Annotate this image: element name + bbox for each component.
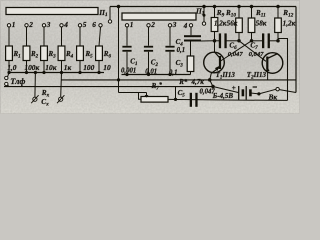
wire R6 column bbox=[99, 27, 101, 72]
capacitor C3 bbox=[165, 27, 174, 74]
node dot rotor P1b bbox=[202, 5, 206, 9]
rotor wire P1a bbox=[109, 7, 111, 20]
clamp terminal Rx-1 bbox=[31, 95, 38, 103]
wire to Cx terminal bbox=[60, 73, 63, 97]
svg-text:Тлф: Тлф bbox=[10, 77, 25, 86]
svg-text:3: 3 bbox=[46, 20, 51, 29]
svg-text:0,001: 0,001 bbox=[121, 67, 136, 74]
label Rx bbox=[41, 89, 50, 99]
battery B 4.5V bbox=[239, 86, 259, 100]
capacitor C5 bbox=[190, 93, 198, 107]
node dot base T1 bbox=[250, 39, 254, 43]
terminal 6 bbox=[92, 20, 96, 29]
resistor R4 bbox=[58, 46, 65, 61]
node dot base T2 bbox=[237, 39, 241, 43]
resistor R3 bbox=[41, 46, 48, 61]
T2 emitter wire bbox=[267, 73, 269, 79]
svg-text:100к: 100к bbox=[24, 63, 39, 72]
terminal 4 bbox=[60, 24, 63, 27]
resistor R6 bbox=[96, 46, 103, 61]
svg-text:1к: 1к bbox=[64, 63, 72, 72]
label R7 bbox=[151, 81, 163, 91]
cross wire base T1 bbox=[220, 41, 252, 62]
capacitor C6 bbox=[215, 33, 240, 48]
svg-text:58к: 58к bbox=[256, 19, 267, 27]
wire collector T2 output tap bbox=[278, 39, 288, 101]
battery wire from emitter node bbox=[213, 87, 239, 93]
node dot rail R12 bbox=[276, 5, 280, 9]
terminal 2 bbox=[25, 24, 28, 27]
terminal c4 bbox=[183, 21, 188, 30]
terminal c3 bbox=[168, 24, 171, 27]
wire R1 column bbox=[8, 27, 10, 72]
wire y80 Cx to x118.5 bbox=[61, 79, 296, 81]
resistor R12 bbox=[275, 7, 282, 41]
terminal 3 bbox=[42, 24, 45, 27]
wire Tlf bottom to line bbox=[8, 85, 9, 86]
node dot rail x118.5 bbox=[117, 5, 121, 9]
telephone terminals Tlf bbox=[5, 76, 8, 85]
switch Vk bbox=[257, 88, 296, 96]
svg-text:Вк: Вк bbox=[268, 92, 278, 101]
bus C bank bbox=[122, 74, 191, 76]
terminal 1 bbox=[7, 24, 10, 27]
svg-text:1: 1 bbox=[130, 20, 134, 29]
vignette bbox=[0, 0, 300, 114]
capacitor C2 bbox=[144, 27, 153, 74]
svg-text:4,7к: 4,7к bbox=[191, 78, 205, 86]
switch bar P1a bbox=[6, 8, 98, 15]
rotor contact P1a bbox=[108, 20, 111, 23]
svg-text:+: + bbox=[232, 83, 236, 92]
top rail bbox=[110, 6, 296, 8]
svg-text:2: 2 bbox=[150, 20, 155, 29]
capacitor C7 bbox=[252, 33, 279, 48]
svg-text:5: 5 bbox=[83, 20, 87, 29]
wire to Rx terminal bbox=[34, 73, 37, 97]
resistor R2 bbox=[23, 46, 30, 61]
R7 left lead bbox=[139, 93, 142, 100]
wire vertical x118.5 rail to wiper line bbox=[118, 7, 120, 93]
long line y86.5 bbox=[4, 86, 213, 88]
resistor R9 bbox=[211, 7, 218, 53]
T1 emitter wire bbox=[210, 73, 213, 87]
svg-text:1,2к: 1,2к bbox=[283, 19, 296, 27]
node dot emitter T1 bbox=[211, 85, 215, 89]
bottom wire bbox=[168, 99, 288, 100]
svg-text:10: 10 bbox=[103, 63, 111, 72]
rotor wire P1b bbox=[203, 7, 206, 22]
wire R3 column bbox=[43, 27, 45, 72]
label minus bbox=[253, 86, 257, 88]
potentiometer R7 bbox=[141, 97, 168, 103]
svg-text:3: 3 bbox=[172, 20, 177, 29]
label plus bbox=[232, 83, 236, 92]
node dot emitter T1 on line bbox=[208, 78, 212, 82]
svg-text:2: 2 bbox=[28, 20, 33, 29]
resistor R1 bbox=[6, 46, 13, 61]
resistor R11 bbox=[248, 7, 255, 41]
R7 wiper bbox=[145, 93, 149, 98]
terminal 5 bbox=[78, 24, 81, 27]
svg-text:4: 4 bbox=[183, 21, 188, 30]
wire Tlf top to bus bbox=[8, 73, 9, 77]
svg-text:1,2к: 1,2к bbox=[214, 19, 227, 27]
wire R2 column bbox=[26, 27, 28, 72]
resistor Rstar bbox=[187, 42, 194, 75]
wiper wire bbox=[119, 92, 147, 94]
wire right edge rail to switch bbox=[295, 7, 297, 93]
terminal c2 bbox=[147, 24, 150, 27]
node dot rail R10 bbox=[237, 5, 241, 9]
label P1a bbox=[98, 8, 108, 18]
svg-text:6: 6 bbox=[92, 20, 96, 29]
wire R5 column bbox=[79, 27, 81, 72]
svg-text:100: 100 bbox=[83, 63, 94, 72]
node dot collector T2 bbox=[276, 39, 280, 43]
cross wire base T2 bbox=[239, 41, 266, 62]
label battery bbox=[212, 92, 234, 100]
node dot collector T1 bbox=[213, 39, 217, 43]
svg-text:0,1: 0,1 bbox=[177, 47, 186, 54]
rotor contact P1b bbox=[202, 22, 205, 25]
label Cx bbox=[41, 98, 49, 108]
capacitor C1 bbox=[122, 27, 131, 74]
junction dots on bus bbox=[7, 71, 100, 74]
resistor R10 bbox=[236, 7, 243, 41]
transistor T2 bbox=[262, 53, 283, 74]
terminal c1 bbox=[125, 24, 128, 27]
label Tlf bbox=[10, 77, 25, 86]
svg-text:1,0: 1,0 bbox=[7, 63, 17, 72]
node dot rail R9 bbox=[213, 5, 217, 9]
node dot x118.5 on emitter line bbox=[117, 78, 120, 81]
wire R4 column bbox=[61, 27, 63, 72]
switch bar P1b bbox=[122, 13, 196, 20]
svg-text:56к: 56к bbox=[227, 19, 238, 27]
svg-text:R*: R* bbox=[178, 78, 188, 86]
junction dots C bus bbox=[125, 73, 171, 76]
wire C4 to collector node bbox=[201, 40, 215, 42]
svg-text:10к: 10к bbox=[45, 63, 56, 72]
node dot y86-y100 link bbox=[174, 87, 177, 102]
node dot rail R11 bbox=[250, 5, 254, 9]
capacitor C4 bbox=[184, 27, 201, 41]
bus R bank bbox=[9, 72, 104, 74]
transistor T1 bbox=[204, 52, 225, 73]
svg-text:1: 1 bbox=[12, 20, 16, 29]
svg-text:Б-4,5В: Б-4,5В bbox=[212, 92, 234, 100]
svg-text:4: 4 bbox=[63, 20, 68, 29]
label P1b bbox=[195, 7, 205, 17]
clamp terminal Cx-2 bbox=[57, 95, 64, 103]
resistor R5 bbox=[77, 46, 84, 61]
label Vk bbox=[268, 92, 278, 101]
